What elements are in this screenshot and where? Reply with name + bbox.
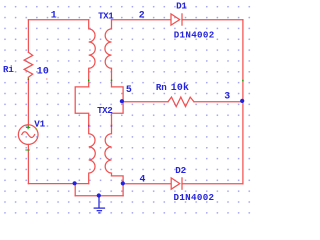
diode D1 [171, 14, 180, 25]
wire rise from ground rail [122, 184, 124, 196]
V1 minus mark [25, 149, 29, 151]
transformer TX2 primary winding [89, 125, 96, 184]
transformer TX2 secondary winding [105, 125, 112, 176]
wire V1 to bottom rail [27, 144, 29, 183]
wire D2 to right rail [182, 183, 243, 185]
junction node 5 [120, 99, 124, 103]
source V1 [18, 125, 38, 145]
transformer TX1 secondary winding [105, 20, 112, 87]
svg-text:Rn: Rn [156, 82, 167, 93]
svg-text:V1: V1 [34, 119, 45, 130]
svg-text:D1: D1 [176, 0, 187, 11]
svg-text:Ri: Ri [3, 64, 14, 75]
wire TX1 primary bottom jog [75, 87, 89, 125]
svg-text:10: 10 [37, 65, 49, 76]
wire node 5 to Rn [123, 101, 168, 103]
wire bottom-left horizontal [28, 183, 88, 185]
svg-text:5: 5 [126, 84, 132, 95]
wire Ri to V1 [27, 77, 29, 127]
wire top-left horizontal node 1 [28, 19, 88, 21]
pin mark V1 top right [35, 128, 36, 129]
svg-text:3: 3 [224, 90, 230, 101]
resistor Rn 10k [168, 97, 194, 107]
wire TX2 secondary bottom jog [112, 176, 124, 184]
V1 plus mark [26, 126, 30, 130]
wire TX1 secondary bottom jog node 5 [112, 87, 124, 125]
junction node 3 [240, 99, 244, 103]
pin mark TX2 secondary top [111, 125, 112, 126]
wire drop to ground rail [74, 184, 76, 196]
stray mark near Ri [46, 78, 47, 79]
transformer TX1 primary winding [89, 20, 96, 87]
svg-text:2: 2 [139, 9, 145, 20]
junction ground tap [97, 193, 101, 197]
svg-text:1: 1 [51, 10, 57, 21]
svg-text:D2: D2 [175, 165, 186, 176]
wire ground rail horizontal [75, 195, 123, 197]
svg-text:D1N4002: D1N4002 [174, 192, 215, 203]
wire right vertical rail [242, 20, 244, 184]
svg-text:10k: 10k [171, 82, 189, 93]
wire bottom-right to D2 [123, 183, 170, 185]
resistor Ri [24, 52, 33, 77]
wire Rn to node 3 [194, 101, 243, 103]
svg-text:4: 4 [140, 173, 146, 184]
pin mark TX2 primary top [88, 125, 89, 126]
diode D2 [171, 178, 180, 189]
svg-text:TX1: TX1 [98, 10, 114, 21]
wire left vertical top [27, 20, 29, 52]
wire D1 to right rail [182, 19, 243, 21]
wire TX1 to D1 node 2 [112, 19, 171, 21]
ground [94, 196, 106, 213]
pin mark TX1 primary bottom [88, 80, 89, 81]
junction bottom-left [73, 181, 77, 185]
pin mark TX1 secondary bottom [111, 80, 112, 81]
junction bottom-right [121, 181, 125, 185]
svg-text:TX2: TX2 [97, 105, 112, 116]
pin mark Ri bottom [28, 79, 29, 80]
svg-text:D1N4002: D1N4002 [174, 30, 215, 41]
pin mark right rail [242, 80, 243, 81]
